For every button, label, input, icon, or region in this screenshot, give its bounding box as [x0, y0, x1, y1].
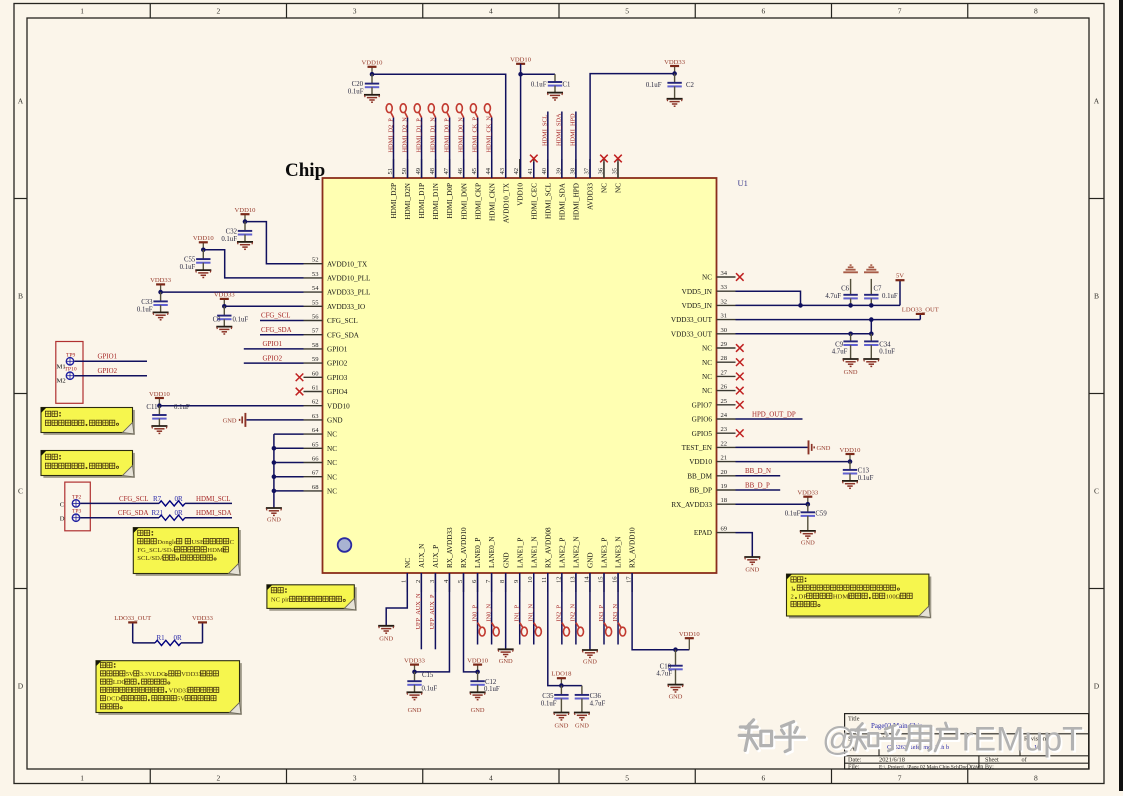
- svg-text:0.1uF: 0.1uF: [221, 236, 237, 243]
- svg-text:GND: GND: [267, 517, 281, 524]
- svg-text:68: 68: [312, 484, 319, 491]
- power flag VDD10 (C13): [849, 454, 851, 462]
- power bar symbol above C7: [864, 271, 879, 273]
- svg-text:HDMI_D0N: HDMI_D0N: [460, 182, 468, 220]
- capacitor C10: [675, 650, 677, 666]
- junction C55: [201, 248, 206, 253]
- svg-text:NC: NC: [702, 373, 712, 381]
- svg-text:1: 1: [80, 7, 84, 16]
- pin 49 HDMI_D1P (top): [421, 159, 423, 178]
- pin 14 GND (bottom): [589, 573, 591, 592]
- svg-text:CFG_SDA: CFG_SDA: [118, 510, 149, 517]
- svg-text:26: 26: [721, 384, 728, 391]
- pin 19 BB_DP (right): [717, 489, 736, 491]
- title block dividers: [845, 733, 1089, 735]
- junction NC bus pin 66: [272, 460, 277, 465]
- no-ERC cross pin 25: [736, 401, 744, 409]
- resistor R21 0R: [159, 515, 185, 520]
- wire net HDMI_CK_N (pin 44): [491, 118, 493, 179]
- svg-text:GPIO5: GPIO5: [692, 430, 713, 438]
- pin 67 NC (left): [304, 476, 323, 478]
- diff pair mark pin 9: [520, 623, 523, 628]
- no-ERC cross pin 29: [736, 344, 744, 352]
- svg-text:0.1uF: 0.1uF: [879, 349, 895, 356]
- svg-text:GND: GND: [583, 659, 597, 666]
- ground for C34: [863, 358, 879, 360]
- pin 16 LANE3_N (bottom): [617, 573, 619, 592]
- pin 38 HDMI_HPD (top): [575, 159, 577, 178]
- pin 27 NC (right): [717, 375, 736, 377]
- pin 15 LANE3_P (bottom): [603, 573, 605, 592]
- ground for NC bus: [266, 507, 282, 509]
- svg-text:HDMI_D0P: HDMI_D0P: [446, 183, 454, 219]
- wire net BB_D_P pin 19: [736, 489, 781, 491]
- ground for C36: [574, 712, 590, 714]
- pin 58 GPIO1 (left): [304, 348, 323, 350]
- svg-text:28: 28: [721, 355, 728, 362]
- diff pair mark pin 15: [604, 623, 607, 628]
- wire VDD33/C33 to pin 54: [161, 291, 304, 293]
- svg-text:GPIO7: GPIO7: [692, 401, 713, 409]
- svg-text:VDD33: VDD33: [150, 277, 172, 284]
- svg-text:A: A: [1094, 97, 1100, 106]
- svg-text:LDO33_OUT: LDO33_OUT: [114, 615, 151, 622]
- svg-text:GPIO1: GPIO1: [327, 346, 348, 354]
- svg-text:2021/6/18: 2021/6/18: [879, 757, 905, 764]
- svg-text:65: 65: [312, 441, 319, 448]
- svg-text:25: 25: [721, 398, 728, 405]
- power flag VDD33 (C2 rail): [674, 66, 676, 74]
- svg-text:2: 2: [791, 594, 794, 601]
- wire pin 33 to 5V rail: [736, 291, 801, 305]
- svg-text:21: 21: [721, 455, 728, 462]
- svg-text:67: 67: [312, 470, 319, 477]
- svg-text:61: 61: [312, 385, 319, 392]
- svg-text:HDMI: HDMI: [207, 547, 225, 554]
- no-ERC cross pin 60: [296, 374, 304, 382]
- wire net IN0_N (pin 7): [491, 573, 493, 645]
- svg-text:R7: R7: [153, 495, 162, 503]
- wire net IN2_P (pin 12): [561, 573, 563, 645]
- pin 59 GPIO2 (left): [304, 362, 323, 364]
- pin 41 HDMI_CEC (top): [533, 159, 535, 178]
- power flag VDD10 (C10): [688, 638, 690, 650]
- capacitor C15: [414, 672, 416, 681]
- wire net IN0_P (pin 6): [477, 573, 479, 645]
- svg-text:69: 69: [721, 526, 728, 533]
- wire branch to C1: [521, 73, 555, 75]
- ground for C20: [364, 94, 380, 96]
- svg-text:R21: R21: [152, 509, 164, 517]
- diff pair mark pin 50: [405, 113, 408, 118]
- pin 4 RX_AVDD33 (bottom): [448, 573, 450, 592]
- power flag VDD10 (C11): [158, 398, 160, 406]
- svg-text:LANE0_P: LANE0_P: [474, 538, 482, 568]
- svg-text:GND: GND: [587, 552, 595, 568]
- svg-text:GND: GND: [223, 417, 237, 424]
- junction C2: [672, 71, 677, 76]
- pin 11 RX_AVDD08 (bottom): [547, 573, 549, 592]
- capacitor C12: [477, 672, 479, 681]
- svg-text:58: 58: [312, 342, 319, 349]
- ground for C15: [407, 691, 423, 693]
- svg-text:64: 64: [312, 427, 319, 434]
- svg-text:VDD10: VDD10: [516, 183, 524, 206]
- svg-text:0.1uF: 0.1uF: [484, 686, 500, 693]
- svg-text:LDO33_OUT: LDO33_OUT: [902, 306, 939, 313]
- svg-text:37: 37: [583, 167, 590, 174]
- svg-text:AVDD33: AVDD33: [587, 183, 595, 210]
- svg-text:VDD10: VDD10: [840, 447, 862, 454]
- svg-text:62: 62: [312, 399, 319, 406]
- pin 56 CFG_SCL (left): [304, 320, 323, 322]
- svg-text:HDMI_SDA: HDMI_SDA: [556, 113, 563, 146]
- power flag LDO18: [560, 678, 562, 685]
- svg-text:U1: U1: [738, 178, 748, 188]
- ground for C33: [153, 311, 169, 313]
- capacitor C2: [674, 74, 676, 83]
- svg-text:HDMI_SDA: HDMI_SDA: [558, 182, 566, 220]
- svg-text:8: 8: [1034, 7, 1038, 16]
- svg-text:29: 29: [721, 341, 728, 348]
- svg-text:8: 8: [1034, 773, 1038, 782]
- pin 55 AVDD33_IO (left): [304, 305, 323, 307]
- svg-text:UFP_AUX_N: UFP_AUX_N: [415, 593, 422, 629]
- diff pair mark pin 45: [475, 113, 478, 118]
- wire C34 riser: [870, 320, 872, 334]
- svg-text:VDD33_OUT: VDD33_OUT: [671, 330, 713, 338]
- svg-text:BB_DM: BB_DM: [687, 472, 712, 480]
- svg-text:USB: USB: [191, 539, 204, 546]
- svg-text:HDMI_D2_P: HDMI_D2_P: [387, 118, 394, 153]
- diff pair mark pin 13: [576, 623, 579, 628]
- svg-text:D: D: [60, 516, 65, 523]
- svg-text:IN2_P: IN2_P: [556, 605, 563, 622]
- svg-text:C: C: [18, 487, 23, 496]
- svg-text:57: 57: [312, 328, 319, 335]
- wire net UFP_AUX_N (pin 2): [420, 573, 422, 649]
- pin 42 VDD10 (top): [519, 159, 521, 178]
- wire EPAD to ground: [736, 533, 753, 557]
- svg-text:7: 7: [898, 7, 902, 16]
- svg-text:TP9: TP9: [66, 352, 76, 358]
- svg-text:VDD10: VDD10: [467, 657, 489, 664]
- svg-text:C8: C8: [213, 317, 222, 324]
- svg-text:0.1uF: 0.1uF: [882, 293, 898, 300]
- pin 60 GPIO3 (left): [304, 376, 323, 378]
- wire pin 18 RX_AVDD33 rail: [736, 503, 808, 505]
- wire pin 4 to VDD33/C15: [415, 573, 450, 672]
- wire NC pin 67 to bus: [274, 476, 304, 478]
- diff pair mark pin 7: [492, 623, 495, 628]
- svg-text:VDD10: VDD10: [235, 207, 257, 214]
- svg-text:4.7uF: 4.7uF: [832, 349, 848, 356]
- test point TP2: [72, 500, 79, 507]
- svg-text:@: @: [822, 720, 856, 757]
- pin 40 HDMI_SCL (top): [547, 159, 549, 178]
- ground bar symbol pin 22: [808, 440, 810, 454]
- junction C34: [869, 332, 874, 337]
- svg-text:SCL/SDA: SCL/SDA: [137, 555, 165, 562]
- junction C13: [848, 459, 853, 464]
- svg-text:VDD5_IN: VDD5_IN: [682, 288, 713, 296]
- svg-text:54: 54: [312, 285, 319, 292]
- svg-text:E:\..Project\..\Page 02 Main C: E:\..Project\..\Page 02 Main Chip.SchDoc: [879, 764, 968, 770]
- svg-text:CFG_SCL: CFG_SCL: [327, 317, 358, 325]
- wire net GPIO1 to pin 58: [244, 348, 304, 350]
- svg-text:NC: NC: [327, 488, 337, 496]
- svg-text:HDMI_D1P: HDMI_D1P: [418, 183, 426, 219]
- wire pin 41 HDMI_CEC stub: [533, 162, 535, 178]
- svg-text:IN3_P: IN3_P: [598, 605, 605, 622]
- ground bar symbol pin 63: [244, 413, 246, 427]
- wire LDO33_OUT to R1: [133, 642, 155, 644]
- svg-text:27: 27: [721, 369, 728, 376]
- svg-text:BB_D_N: BB_D_N: [745, 468, 771, 475]
- svg-text:LANE1_P: LANE1_P: [516, 538, 524, 568]
- svg-text:VDD33: VDD33: [797, 490, 819, 497]
- svg-text:Drawn By:: Drawn By:: [967, 763, 995, 770]
- IC U1 chip body: [323, 178, 717, 573]
- svg-text:18: 18: [721, 497, 728, 504]
- svg-text:UFP_AUX_P: UFP_AUX_P: [429, 594, 436, 629]
- junction VDD10/C1 branch: [518, 72, 523, 77]
- svg-text:5: 5: [625, 773, 629, 782]
- svg-text:63: 63: [312, 413, 319, 420]
- svg-text:5V: 5V: [896, 273, 904, 280]
- no-ERC cross pin 61: [296, 388, 304, 396]
- capacitor C59: [807, 504, 809, 512]
- svg-text:C15: C15: [422, 672, 434, 679]
- svg-text:Chip: Chip: [285, 160, 325, 181]
- svg-text:NC: NC: [327, 473, 337, 481]
- wire pin 21 VDD10 rail: [736, 461, 851, 463]
- svg-text:LDO18: LDO18: [551, 671, 572, 678]
- diff pair mark pin 46: [461, 113, 464, 118]
- svg-text:HDMI_D2_N: HDMI_D2_N: [401, 117, 408, 153]
- svg-text:TP10: TP10: [65, 367, 77, 373]
- diff pair mark pin 16: [618, 623, 621, 628]
- capacitor C32: [244, 222, 246, 231]
- svg-text:LANE3_N: LANE3_N: [615, 536, 623, 568]
- wire pin 31 to LDO33_OUT flag: [736, 319, 921, 321]
- svg-text:File:: File:: [848, 763, 860, 770]
- power flag VDD33 (C8): [223, 299, 225, 306]
- note: test points keep (1): [43, 410, 134, 435]
- svg-text:VDD10: VDD10: [327, 402, 350, 410]
- svg-text:1: 1: [791, 585, 794, 592]
- svg-text:22: 22: [721, 440, 728, 447]
- svg-text:0.1uF: 0.1uF: [348, 89, 364, 96]
- svg-text:C32: C32: [226, 228, 238, 235]
- junction NC bus pin 65: [272, 446, 277, 451]
- svg-text:D: D: [18, 682, 24, 691]
- svg-text:NC: NC: [702, 274, 712, 282]
- wire VDD33/C8 to pin 55: [224, 305, 303, 307]
- svg-text:HDMI_D1_N: HDMI_D1_N: [429, 117, 436, 153]
- svg-text:GPIO1: GPIO1: [98, 354, 118, 361]
- pin 68 NC (left): [304, 490, 323, 492]
- svg-text:52: 52: [312, 257, 319, 264]
- diff pair mark pin 6: [478, 623, 481, 628]
- svg-text:HDMI_SCL: HDMI_SCL: [542, 114, 549, 146]
- pin 17 RX_AVDD10 (bottom): [631, 573, 633, 592]
- wire net CFG_SCL to pin 56: [260, 320, 304, 322]
- svg-text:VDD33: VDD33: [169, 687, 189, 694]
- wire VDD10 rail to pin 43: [372, 74, 506, 178]
- svg-text:LANE0_N: LANE0_N: [488, 536, 496, 568]
- svg-text:4: 4: [489, 7, 493, 16]
- svg-text:VDD33: VDD33: [404, 657, 426, 664]
- svg-text:RX_AVDD33: RX_AVDD33: [671, 501, 712, 509]
- pin 6 LANE0_P (bottom): [477, 573, 479, 592]
- svg-text:HDMI_CEC: HDMI_CEC: [530, 183, 538, 220]
- pin 62 VDD10 (left): [304, 405, 323, 407]
- wire net IN1_P (pin 9): [519, 573, 521, 645]
- wire NC pin 65 to bus: [274, 447, 304, 449]
- no-ERC cross pin 34: [736, 273, 744, 281]
- svg-text:GND: GND: [327, 417, 343, 425]
- wire net HDMI_D0_P (pin 47): [449, 118, 451, 179]
- svg-text:20: 20: [721, 469, 728, 476]
- svg-text:C12: C12: [485, 679, 497, 686]
- wire net IN3_N (pin 16): [617, 573, 619, 645]
- capacitor C11: [158, 406, 160, 415]
- svg-text:24: 24: [721, 412, 728, 419]
- wire pin 22 TEST_EN to ground bar: [736, 446, 808, 448]
- ground for C32: [237, 241, 253, 243]
- svg-text:R1: R1: [157, 634, 166, 642]
- svg-text:LANE1_N: LANE1_N: [530, 536, 538, 568]
- svg-text:LANE2_P: LANE2_P: [558, 538, 566, 568]
- svg-text:CFG_SCL: CFG_SCL: [119, 496, 149, 503]
- diff pair mark pin 51: [391, 113, 394, 118]
- svg-text:GND: GND: [575, 723, 589, 730]
- capacitor C55: [202, 250, 204, 259]
- svg-text:23: 23: [721, 426, 728, 433]
- svg-text:VDD33: VDD33: [664, 59, 686, 66]
- svg-text:HDMI_HPD: HDMI_HPD: [572, 183, 580, 220]
- svg-text:AVDD10_TX: AVDD10_TX: [327, 260, 368, 268]
- capacitor C8: [223, 306, 225, 315]
- junction NC bus pin 67: [272, 474, 277, 479]
- svg-text:0.1uF: 0.1uF: [541, 700, 557, 707]
- svg-text:42: 42: [513, 168, 520, 175]
- pin 30 VDD33_OUT (right): [717, 333, 736, 335]
- svg-text:HDMI_CK_N: HDMI_CK_N: [486, 116, 493, 153]
- svg-text:5: 5: [625, 7, 629, 16]
- svg-text:GND: GND: [817, 445, 831, 452]
- pin 13 LANE2_N (bottom): [575, 573, 577, 592]
- pin 45 HDMI_CKP (top): [477, 159, 479, 178]
- pin 9 LANE1_P (bottom): [519, 573, 521, 592]
- pin 66 NC (left): [304, 462, 323, 464]
- diff pair mark pin 10: [534, 623, 537, 628]
- wire net IN3_P (pin 15): [603, 573, 605, 645]
- svg-text:4.7uF: 4.7uF: [590, 700, 606, 707]
- svg-text:RX_AVDD10: RX_AVDD10: [629, 527, 637, 568]
- no-ERC cross pin 28: [736, 358, 744, 366]
- svg-text:60: 60: [312, 370, 319, 377]
- junction C33: [158, 290, 163, 295]
- svg-text:HDMI_SCL: HDMI_SCL: [544, 183, 552, 219]
- capacitor C1: [554, 74, 556, 82]
- ground for C1: [547, 92, 563, 94]
- ground for pin 1: [378, 625, 394, 627]
- svg-text:56: 56: [312, 314, 319, 321]
- diff pair mark pin 47: [447, 113, 450, 118]
- svg-text:C10: C10: [660, 663, 672, 670]
- svg-text:C20: C20: [352, 81, 364, 88]
- wire net HDMI_D2_P (pin 51): [393, 118, 395, 179]
- wire net UFP_AUX_P (pin 3): [434, 573, 436, 649]
- svg-text:C: C: [230, 539, 235, 546]
- capacitor C33: [160, 292, 162, 301]
- no-ERC cross pin 36: [603, 162, 605, 178]
- svg-text:RX_AVDD10: RX_AVDD10: [460, 527, 468, 568]
- pin-1 indicator circle: [338, 538, 352, 552]
- wire R1 to VDD33: [181, 642, 203, 644]
- svg-text:C6: C6: [841, 285, 850, 292]
- svg-text:HDMI_HPD: HDMI_HPD: [570, 113, 577, 146]
- pin 54 AVDD33_PLL (left): [304, 291, 323, 293]
- wire net BB_D_N pin 20: [736, 475, 781, 477]
- wire net HDMI_D0_N (pin 46): [463, 118, 465, 179]
- svg-text:3.3VLDO: 3.3VLDO: [140, 671, 166, 678]
- svg-text:C36: C36: [590, 693, 602, 700]
- pin 25 GPIO7 (right): [717, 404, 736, 406]
- wire pin 11 to LDO18: [548, 573, 582, 686]
- svg-text:IN3_N: IN3_N: [612, 604, 619, 622]
- svg-text:RX_AVDD33: RX_AVDD33: [446, 527, 454, 568]
- svg-text:GPIO6: GPIO6: [692, 416, 713, 424]
- wire pin 1 NC to ground: [386, 573, 407, 626]
- wire net HDMI_D1_N (pin 48): [435, 118, 437, 179]
- power flag LDO33_OUT: [919, 314, 921, 320]
- pin 69 EPAD stub, number and name: [717, 532, 736, 534]
- junction pin31/C34 riser: [869, 317, 874, 322]
- wire pin 32 to 5V rail: [736, 304, 901, 306]
- svg-text:CFG_SCL: CFG_SCL: [261, 313, 291, 320]
- svg-text:AUX_P: AUX_P: [432, 545, 440, 568]
- ground for C12: [470, 691, 486, 693]
- svg-text:C35: C35: [542, 693, 554, 700]
- power flag VDD10 (C32): [244, 214, 246, 221]
- svg-text:Dongle: Dongle: [157, 539, 177, 546]
- wire net IN2_N (pin 13): [575, 573, 577, 645]
- wire net GPIO2 from TP10: [74, 375, 147, 377]
- wire net HDMI_D2_N (pin 50): [407, 118, 409, 179]
- wire pin 63 to ground bar: [247, 419, 304, 421]
- svg-text:C13: C13: [858, 467, 870, 474]
- pin 35 NC (top): [617, 159, 619, 178]
- title block outline: [845, 714, 1089, 769]
- ground for C13: [842, 480, 858, 482]
- pin 5 RX_AVDD10 (bottom): [463, 573, 465, 592]
- note: NC pin grounding (5): [269, 587, 356, 611]
- no-ERC cross pin 35: [617, 162, 619, 178]
- wire VDD10/C11 to pin 62: [159, 405, 303, 407]
- wire net HDMI_CK_P (pin 45): [477, 118, 479, 179]
- pin 39 HDMI_SDA (top): [561, 159, 563, 178]
- pin 7 LANE0_N (bottom): [491, 573, 493, 592]
- svg-text:0.1uF: 0.1uF: [233, 317, 249, 324]
- svg-text:VDD10: VDD10: [689, 458, 712, 466]
- svg-text:6: 6: [762, 7, 766, 16]
- svg-text:VDD10: VDD10: [510, 57, 532, 64]
- svg-text:IN2_N: IN2_N: [570, 604, 577, 622]
- svg-text:32: 32: [721, 298, 728, 305]
